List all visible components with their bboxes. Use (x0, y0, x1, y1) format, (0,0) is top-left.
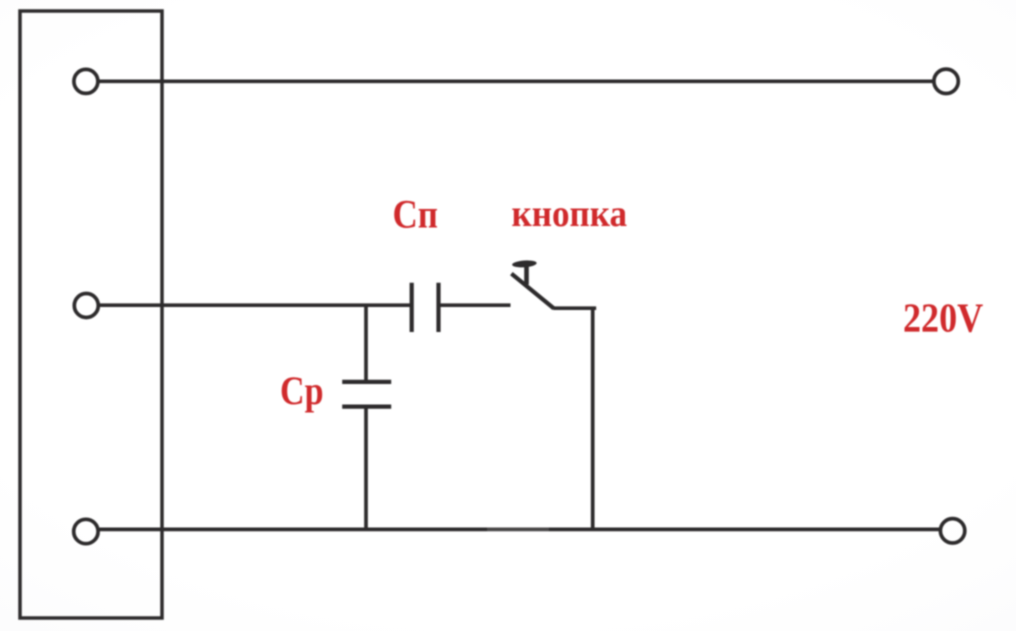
switch SB "кнопка" lever (511, 274, 553, 309)
capacitor C2 "Ср" top plate (342, 380, 391, 384)
switch SB actuator stem (524, 265, 529, 285)
wire : middle run, left section to capacitor Cп (100, 303, 410, 307)
wire : switch output down to bottom run (553, 308, 594, 310)
svg-text:Ср: Ср (280, 368, 324, 413)
wire : branch down to capacitor Cр (364, 305, 368, 380)
capacitor C1 "Сп" left plate (410, 283, 414, 332)
terminal: left middle (74, 294, 98, 318)
svg-text:кнопка: кнопка (512, 193, 628, 235)
svg-text:Сп: Сп (393, 192, 439, 237)
faint watermark smudge on bottom wire (487, 518, 549, 540)
capacitor C2 "Ср" bottom plate (342, 405, 391, 409)
wire : capacitor Cп to switch contact (441, 303, 511, 307)
capacitor C1 "Сп" right plate (436, 283, 440, 332)
wire : capacitor Cр to bottom run (364, 408, 368, 529)
terminal: left bottom (74, 519, 98, 543)
terminal: right bottom (940, 519, 964, 543)
terminal: left top (74, 69, 98, 93)
wire : bottom run (100, 528, 940, 532)
motor terminal block (left rectangle) (20, 11, 162, 618)
terminal: right top (934, 69, 958, 93)
wire : top run (100, 79, 933, 83)
switch SB actuator cap (512, 260, 537, 268)
svg-text:220V: 220V (903, 295, 984, 341)
